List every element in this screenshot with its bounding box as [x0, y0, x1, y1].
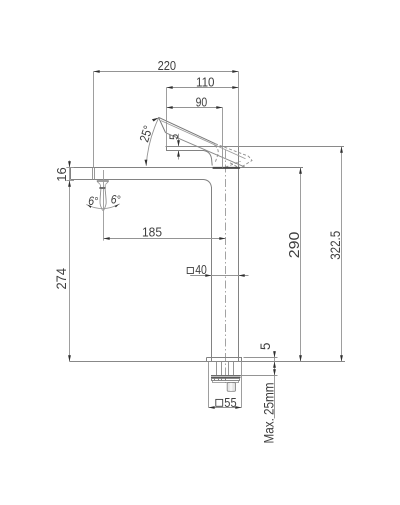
dimension 5 head line [178, 134, 180, 160]
dimension 16 tick bottom [66, 180, 74, 182]
arrow 25 arc top [152, 118, 159, 122]
svg-text:290: 290 [287, 232, 303, 259]
svg-text:Max. 25mm: Max. 25mm [260, 383, 276, 444]
spout arm underside [71, 180, 212, 188]
column centerline [225, 150, 227, 383]
dimension 90 right extension [222, 108, 224, 168]
cartridge hidden dashed curve [215, 145, 219, 162]
lock washer segmented row [212, 379, 240, 381]
head step line [167, 147, 213, 166]
arrow 5 head lower [177, 150, 180, 156]
handle inner top line [161, 121, 246, 159]
beak tip dashed curve [230, 163, 238, 168]
arrow 55 right [235, 406, 241, 409]
svg-text:322.5: 322.5 [327, 231, 343, 260]
arrow max25 bottom [273, 369, 276, 375]
svg-text:5: 5 [258, 343, 273, 350]
angle 25 arc [146, 118, 159, 166]
dimension 274 line [69, 161, 71, 362]
dimension 322.5 line [341, 147, 343, 362]
counter surface line [70, 361, 346, 363]
shank inner stud [222, 362, 229, 376]
svg-text:40: 40 [195, 262, 207, 277]
water stream left edge [100, 189, 103, 211]
arrow 5 base upper [273, 351, 276, 357]
gasket row [213, 381, 239, 383]
svg-text:274: 274 [53, 268, 69, 290]
arrow 185 right [219, 237, 225, 240]
arrow 274 bottom [68, 355, 71, 361]
dimension 40 line [190, 275, 248, 277]
arrow 220 right [232, 70, 238, 73]
outlet housing bevels [97, 182, 108, 185]
arrow 5 head upper [177, 140, 180, 146]
dimension 185 line [104, 238, 226, 240]
beak tip dashed outline [215, 144, 252, 169]
svg-text:6°: 6° [88, 196, 98, 208]
outlet centerline [103, 170, 105, 241]
aerator face dark bar [213, 167, 240, 169]
dimension 16 tick top [66, 167, 74, 169]
label square40 [187, 268, 193, 274]
washer extension for max25 [241, 375, 278, 377]
flange top extension for 5 [244, 357, 278, 359]
svg-text:110: 110 [196, 75, 215, 90]
dimension 55 right extension [241, 362, 243, 408]
dimension 90 line [167, 107, 223, 109]
washer top line [211, 375, 241, 377]
outlet nozzle block [101, 185, 106, 188]
dimension 220 left extension [93, 72, 95, 168]
svg-text:90: 90 [196, 95, 208, 110]
spout arm left end face [70, 168, 72, 180]
dimension 220/110 right extension [238, 72, 240, 148]
svg-text:6°: 6° [111, 195, 121, 207]
shank outer tube [217, 362, 234, 376]
arrow 185 left [104, 237, 110, 240]
arm seam lines [93, 168, 95, 180]
water stream right edge [104, 189, 107, 211]
arrow 25 arc bottom [145, 160, 148, 166]
column right edge [238, 147, 240, 362]
arrow 322.5 bottom [340, 355, 343, 361]
handle tip face [159, 117, 166, 133]
arrow 110 left [167, 86, 173, 89]
dimension 55 line [209, 407, 242, 409]
arrow 322.5 top [340, 147, 343, 153]
column left edge [211, 187, 213, 362]
handle underside edge [166, 133, 245, 167]
svg-text:16: 16 [54, 167, 69, 182]
arrow 90 right [216, 106, 222, 109]
mounting nut [227, 383, 235, 392]
dimension 110 line [167, 87, 239, 89]
arrow 16-274 up [68, 181, 71, 187]
arrow 290 top [299, 168, 302, 174]
svg-text:5: 5 [169, 134, 181, 140]
arrow 290 bottom [299, 355, 302, 361]
spout arm top surface + 290 extension [71, 167, 304, 169]
handle top edge [159, 117, 216, 143]
washer dark bar [211, 377, 241, 379]
dimension 220 line [94, 71, 239, 73]
arrow 5 base lower [273, 362, 276, 368]
arrow 90 left [167, 106, 173, 109]
arrow 40 left [205, 274, 211, 277]
arrow 55 left [209, 406, 215, 409]
dimension 55 left extension [208, 362, 210, 408]
arrow 110 right [232, 86, 238, 89]
label square55 [216, 399, 223, 406]
arrow 16 top [68, 161, 71, 167]
outlet nozzle dark bar [99, 187, 105, 189]
dimension 5 base and max25 line [274, 351, 276, 419]
arrow 6 arc left [87, 205, 91, 208]
svg-text:55: 55 [224, 395, 236, 410]
spray cone arc [86, 204, 119, 209]
base flange [207, 358, 242, 362]
dimension 110/90 left extension [166, 88, 168, 147]
arrow 40 right [239, 274, 245, 277]
head top plateau + 322.5 extension [166, 146, 345, 148]
outlet aerator bar under arm [97, 180, 109, 182]
svg-text:185: 185 [142, 224, 162, 239]
arrow 6 arc right [115, 204, 120, 207]
beak tip inner dashed cut face [226, 161, 241, 167]
svg-text:220: 220 [158, 58, 177, 73]
dimension 290 line [300, 168, 302, 362]
arrow 220 left [94, 70, 100, 73]
